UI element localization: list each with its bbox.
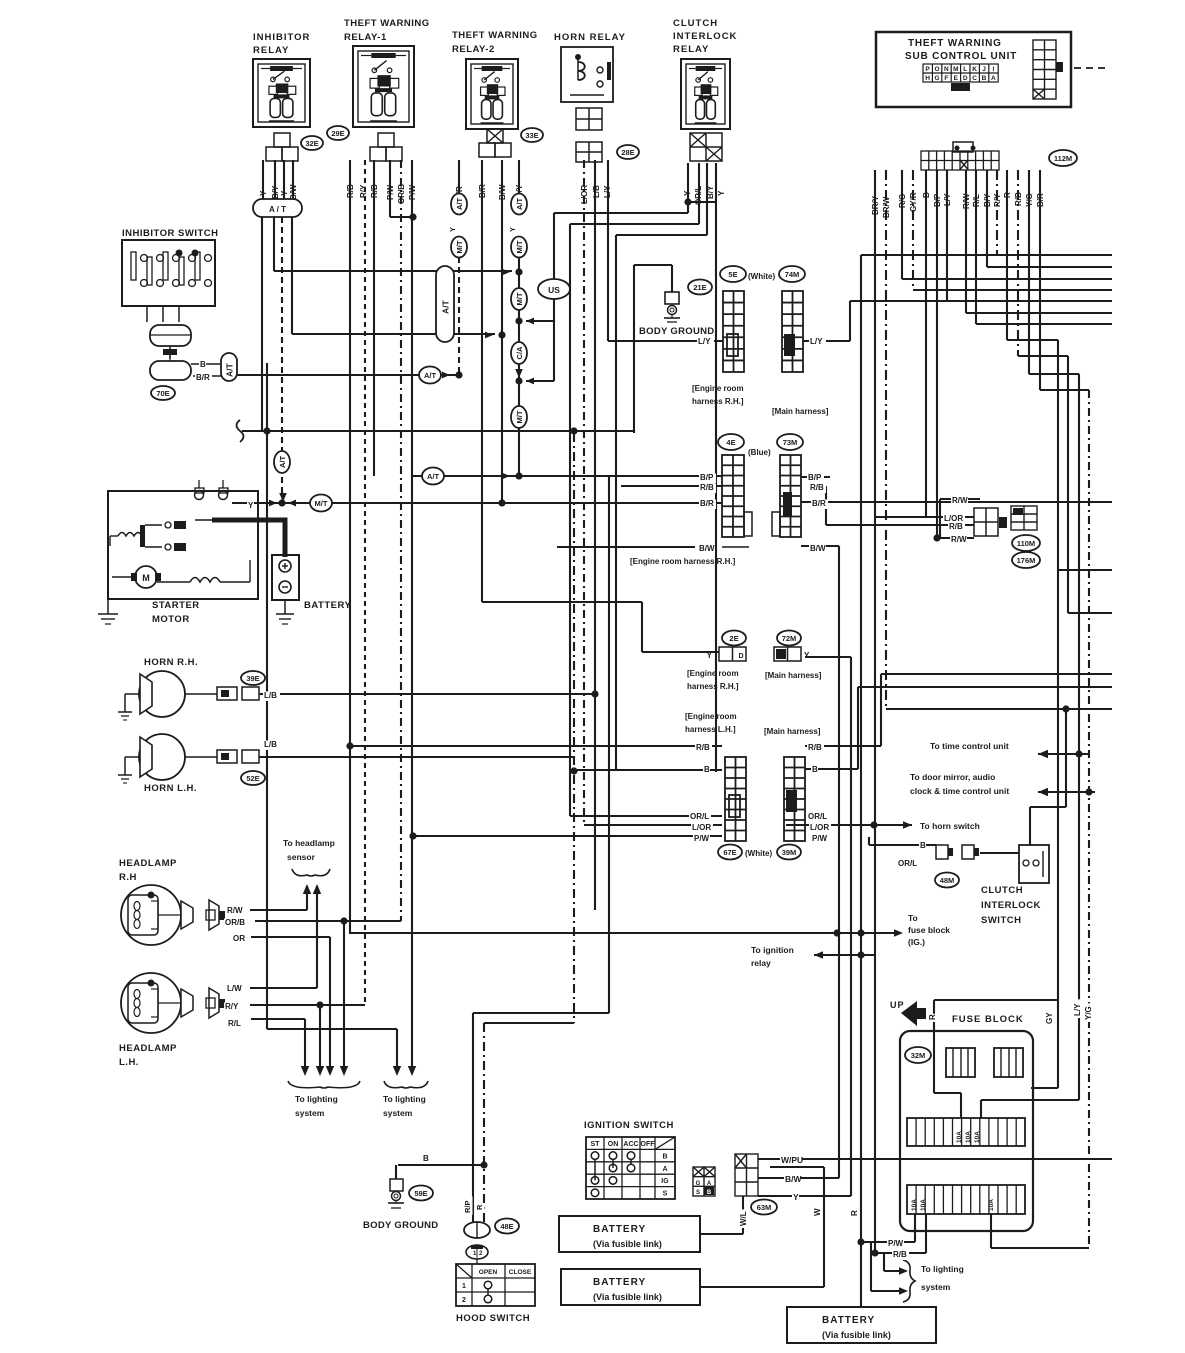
- svg-text:ON: ON: [608, 1141, 619, 1148]
- svg-text:W/L: W/L: [739, 1211, 748, 1226]
- svg-text:L/W: L/W: [227, 984, 242, 993]
- svg-text:BATTERY: BATTERY: [304, 600, 351, 611]
- svg-text:FUSE BLOCK: FUSE BLOCK: [952, 1014, 1024, 1025]
- svg-text:32E: 32E: [305, 139, 318, 148]
- svg-text:To time control unit: To time control unit: [930, 741, 1009, 751]
- svg-text:harness R.H.]: harness R.H.]: [692, 397, 744, 406]
- svg-text:HORN L.H.: HORN L.H.: [144, 783, 197, 794]
- svg-text:HORN R.H.: HORN R.H.: [144, 657, 198, 668]
- svg-text:fuse block: fuse block: [908, 925, 950, 935]
- svg-text:110M: 110M: [1017, 539, 1035, 548]
- svg-text:BODY GROUND: BODY GROUND: [363, 1220, 438, 1231]
- svg-text:L/Y: L/Y: [698, 337, 711, 346]
- svg-text:[Engine room harness R.H.]: [Engine room harness R.H.]: [630, 557, 736, 566]
- svg-text:28E: 28E: [621, 148, 634, 157]
- svg-text:RELAY-2: RELAY-2: [452, 44, 495, 55]
- svg-text:B: B: [920, 841, 926, 850]
- svg-text:INTERLOCK: INTERLOCK: [673, 31, 737, 42]
- svg-text:R: R: [850, 1210, 859, 1216]
- svg-text:L: L: [963, 66, 967, 73]
- svg-text:(White): (White): [748, 272, 775, 281]
- svg-text:To door mirror, audio: To door mirror, audio: [910, 772, 995, 782]
- svg-text:IG: IG: [661, 1178, 669, 1185]
- svg-text:G: G: [934, 75, 939, 82]
- svg-text:To headlamp: To headlamp: [283, 838, 335, 848]
- svg-text:67E: 67E: [723, 848, 736, 857]
- svg-text:R: R: [928, 1014, 937, 1020]
- svg-text:US: US: [548, 285, 560, 295]
- svg-text:48M: 48M: [940, 876, 955, 885]
- svg-text:R/B: R/B: [949, 522, 963, 531]
- svg-text:R/Y: R/Y: [225, 1002, 239, 1011]
- svg-text:A: A: [991, 75, 996, 82]
- svg-text:To: To: [908, 913, 918, 923]
- svg-text:B/R: B/R: [700, 499, 714, 508]
- svg-text:Y: Y: [508, 227, 517, 232]
- svg-text:39M: 39M: [782, 848, 797, 857]
- svg-text:32M: 32M: [911, 1051, 926, 1060]
- svg-text:B/P: B/P: [700, 473, 714, 482]
- svg-text:THEFT WARNING: THEFT WARNING: [908, 38, 1002, 49]
- svg-text:(IG.): (IG.): [908, 937, 925, 947]
- svg-text:R/W: R/W: [952, 496, 968, 505]
- svg-text:[Main harness]: [Main harness]: [765, 671, 822, 680]
- svg-text:OFF: OFF: [641, 1141, 656, 1148]
- svg-text:R/L: R/L: [228, 1019, 241, 1028]
- svg-text:P/W: P/W: [888, 1239, 904, 1248]
- svg-text:(Blue): (Blue): [748, 448, 771, 457]
- svg-text:10A: 10A: [965, 1131, 972, 1143]
- svg-text:INHIBITOR: INHIBITOR: [253, 32, 310, 43]
- svg-text:59E: 59E: [414, 1189, 427, 1198]
- svg-text:R/W: R/W: [227, 906, 243, 915]
- svg-text:Y: Y: [448, 227, 457, 232]
- svg-text:B/W: B/W: [699, 544, 715, 553]
- svg-text:W: W: [813, 1208, 822, 1216]
- svg-text:E: E: [954, 75, 959, 82]
- svg-text:STARTER: STARTER: [152, 600, 200, 611]
- svg-text:HEADLAMP: HEADLAMP: [119, 1043, 177, 1054]
- svg-text:A: A: [707, 1181, 712, 1187]
- svg-text:system: system: [295, 1108, 325, 1118]
- svg-text:29E: 29E: [331, 129, 344, 138]
- svg-text:L.H.: L.H.: [119, 1057, 139, 1068]
- svg-text:2: 2: [462, 1297, 466, 1304]
- svg-text:39E: 39E: [246, 674, 259, 683]
- svg-text:P: P: [925, 66, 930, 73]
- svg-text:(Via fusible link): (Via fusible link): [593, 1292, 662, 1302]
- svg-text:52E: 52E: [246, 774, 259, 783]
- svg-text:M/T: M/T: [315, 499, 328, 508]
- svg-text:sensor: sensor: [287, 852, 316, 862]
- svg-text:HORN RELAY: HORN RELAY: [554, 32, 626, 43]
- svg-text:A/T: A/T: [441, 300, 451, 315]
- svg-text:B: B: [662, 1153, 667, 1160]
- svg-text:10A: 10A: [974, 1131, 981, 1143]
- svg-text:B/W: B/W: [810, 544, 826, 553]
- svg-text:A/T: A/T: [455, 198, 464, 211]
- svg-text:IGNITION SWITCH: IGNITION SWITCH: [584, 1120, 674, 1131]
- svg-text:B/R: B/R: [196, 373, 210, 382]
- svg-text:176M: 176M: [1017, 556, 1036, 565]
- svg-text:B/W: B/W: [785, 1174, 803, 1184]
- svg-text:To lighting: To lighting: [295, 1094, 338, 1104]
- svg-text:10A: 10A: [988, 1199, 995, 1211]
- svg-text:R/B: R/B: [696, 743, 710, 752]
- svg-text:OR: OR: [233, 934, 245, 943]
- svg-text:Y: Y: [804, 651, 810, 660]
- svg-text:H: H: [925, 75, 930, 82]
- svg-text:CLUTCH: CLUTCH: [673, 18, 718, 29]
- svg-text:RELAY: RELAY: [673, 44, 709, 55]
- svg-text:RELAY: RELAY: [253, 45, 289, 56]
- svg-text:M: M: [142, 573, 150, 583]
- svg-text:(Via fusible link): (Via fusible link): [593, 1239, 662, 1249]
- svg-text:B: B: [982, 75, 987, 82]
- svg-text:48E: 48E: [500, 1222, 513, 1231]
- svg-text:10A: 10A: [956, 1131, 963, 1143]
- svg-text:To lighting: To lighting: [921, 1264, 964, 1274]
- svg-text:4E: 4E: [726, 438, 735, 447]
- svg-text:OR/L: OR/L: [808, 812, 827, 821]
- svg-text:A/T: A/T: [278, 456, 287, 469]
- svg-text:2E: 2E: [729, 634, 738, 643]
- svg-text:L/B: L/B: [264, 691, 277, 700]
- svg-text:A / T: A / T: [269, 205, 286, 214]
- svg-text:L/Y: L/Y: [1073, 1003, 1082, 1016]
- svg-text:BATTERY: BATTERY: [822, 1315, 875, 1326]
- svg-text:10A: 10A: [920, 1199, 927, 1211]
- svg-text:B/P: B/P: [808, 473, 822, 482]
- svg-text:[Main harness]: [Main harness]: [764, 727, 821, 736]
- svg-text:R/Y: R/Y: [359, 184, 368, 198]
- svg-text:INTERLOCK: INTERLOCK: [981, 900, 1041, 911]
- svg-text:R/B: R/B: [700, 483, 714, 492]
- svg-text:[Main harness]: [Main harness]: [772, 407, 829, 416]
- svg-text:A/T: A/T: [424, 371, 437, 380]
- svg-text:W/PU: W/PU: [781, 1155, 803, 1165]
- svg-text:RELAY-1: RELAY-1: [344, 32, 387, 43]
- svg-text:BATTERY: BATTERY: [593, 1277, 646, 1288]
- svg-text:B/R: B/R: [812, 499, 826, 508]
- svg-text:SWITCH: SWITCH: [981, 915, 1021, 926]
- svg-text:I: I: [992, 66, 994, 73]
- svg-text:K: K: [972, 66, 977, 73]
- svg-text:F: F: [944, 75, 948, 82]
- svg-text:R/P: R/P: [463, 1200, 472, 1213]
- svg-text:system: system: [383, 1108, 413, 1118]
- svg-text:L/B: L/B: [264, 740, 277, 749]
- svg-text:OR/B: OR/B: [225, 918, 245, 927]
- svg-text:harness L.H.]: harness L.H.]: [685, 725, 736, 734]
- svg-text:BODY GROUND: BODY GROUND: [639, 326, 714, 337]
- svg-text:(White): (White): [745, 849, 772, 858]
- svg-text:A/T: A/T: [225, 363, 235, 378]
- svg-text:5E: 5E: [728, 270, 737, 279]
- svg-text:112M: 112M: [1054, 154, 1072, 163]
- svg-text:SUB CONTROL UNIT: SUB CONTROL UNIT: [905, 51, 1017, 62]
- svg-text:72M: 72M: [782, 634, 797, 643]
- svg-text:To lighting: To lighting: [383, 1094, 426, 1104]
- svg-text:D: D: [963, 75, 968, 82]
- svg-text:P/W: P/W: [812, 834, 828, 843]
- svg-text:system: system: [921, 1282, 951, 1292]
- svg-text:Y/G: Y/G: [1084, 1006, 1093, 1020]
- svg-text:[Engine room: [Engine room: [685, 712, 737, 721]
- svg-text:M/T: M/T: [455, 240, 464, 253]
- svg-text:D: D: [738, 653, 743, 660]
- svg-text:G: G: [696, 1181, 701, 1187]
- svg-text:73M: 73M: [783, 438, 798, 447]
- svg-text:J: J: [982, 66, 986, 73]
- svg-text:21E: 21E: [693, 283, 706, 292]
- svg-text:R/W: R/W: [951, 535, 967, 544]
- svg-text:CLOSE: CLOSE: [509, 1269, 532, 1276]
- svg-text:A/T: A/T: [427, 472, 440, 481]
- svg-text:R: R: [475, 1204, 484, 1210]
- svg-text:C: C: [972, 75, 977, 82]
- svg-text:Y: Y: [793, 1192, 799, 1202]
- svg-text:[Engine room: [Engine room: [692, 384, 744, 393]
- svg-text:HEADLAMP: HEADLAMP: [119, 858, 177, 869]
- svg-text:R/B: R/B: [893, 1250, 907, 1259]
- svg-text:L/Y: L/Y: [810, 337, 823, 346]
- svg-text:B: B: [707, 1190, 712, 1196]
- svg-text:N: N: [944, 66, 949, 73]
- svg-text:74M: 74M: [785, 270, 800, 279]
- svg-text:70E: 70E: [156, 389, 169, 398]
- svg-text:B: B: [812, 765, 818, 774]
- svg-text:A: A: [662, 1166, 667, 1173]
- svg-text:S: S: [663, 1191, 668, 1198]
- svg-text:(Via fusible link): (Via fusible link): [822, 1330, 891, 1340]
- svg-text:B: B: [704, 765, 710, 774]
- svg-text:S: S: [696, 1190, 700, 1196]
- svg-text:[Engine room: [Engine room: [687, 669, 739, 678]
- svg-text:R/B: R/B: [810, 483, 824, 492]
- svg-text:P/W: P/W: [694, 834, 710, 843]
- svg-text:To ignition: To ignition: [751, 945, 794, 955]
- svg-text:ST: ST: [591, 1141, 601, 1148]
- svg-text:OR/L: OR/L: [690, 812, 709, 821]
- svg-text:R/B: R/B: [808, 743, 822, 752]
- svg-text:B: B: [200, 360, 206, 369]
- svg-text:33E: 33E: [525, 131, 538, 140]
- svg-text:63M: 63M: [757, 1203, 772, 1212]
- svg-text:Y: Y: [248, 501, 254, 510]
- svg-text:L/OR: L/OR: [692, 823, 711, 832]
- svg-text:M/T: M/T: [515, 292, 524, 305]
- svg-text:C/A: C/A: [515, 346, 524, 360]
- svg-text:MOTOR: MOTOR: [152, 614, 190, 625]
- svg-text:ACC: ACC: [623, 1141, 638, 1148]
- svg-text:To horn switch: To horn switch: [920, 821, 980, 831]
- svg-text:1: 1: [462, 1283, 466, 1290]
- svg-text:R.H: R.H: [119, 872, 137, 883]
- svg-text:UP: UP: [890, 1000, 905, 1010]
- svg-text:HOOD SWITCH: HOOD SWITCH: [456, 1313, 530, 1324]
- svg-text:OPEN: OPEN: [479, 1269, 498, 1276]
- svg-text:GY: GY: [1045, 1012, 1054, 1024]
- svg-text:THEFT WARNING: THEFT WARNING: [452, 30, 538, 41]
- svg-text:OR/L: OR/L: [898, 859, 917, 868]
- svg-text:B: B: [423, 1154, 429, 1163]
- svg-text:M: M: [953, 66, 958, 73]
- svg-text:clock & time control unit: clock & time control unit: [910, 786, 1009, 796]
- svg-text:Y: Y: [717, 190, 726, 196]
- svg-text:L/OR: L/OR: [810, 823, 829, 832]
- svg-text:L/B: L/B: [592, 185, 601, 198]
- svg-text:relay: relay: [751, 958, 771, 968]
- svg-text:A/T: A/T: [515, 198, 524, 211]
- svg-text:10A: 10A: [911, 1199, 918, 1211]
- svg-text:M/T: M/T: [515, 410, 524, 423]
- svg-text:O: O: [934, 66, 939, 73]
- svg-text:harness R.H.]: harness R.H.]: [687, 682, 739, 691]
- svg-text:CLUTCH: CLUTCH: [981, 885, 1023, 896]
- svg-text:BATTERY: BATTERY: [593, 1224, 646, 1235]
- svg-text:M/T: M/T: [515, 240, 524, 253]
- svg-text:THEFT WARNING: THEFT WARNING: [344, 18, 430, 29]
- svg-text:INHIBITOR SWITCH: INHIBITOR SWITCH: [122, 228, 219, 239]
